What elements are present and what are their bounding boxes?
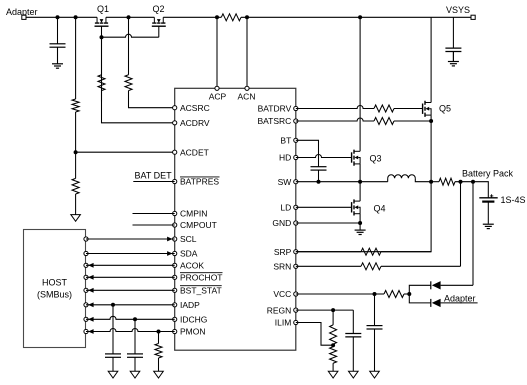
ground (triangle) below REGN cap	[349, 371, 359, 378]
pin SRN	[273, 262, 298, 272]
resistor: ILIM divider lower	[330, 345, 337, 371]
svg-text:BT: BT	[280, 136, 291, 146]
resistor: ILIM divider upper	[330, 310, 337, 345]
pin IDCHG	[173, 315, 208, 325]
svg-text:ACSRC: ACSRC	[180, 103, 210, 113]
pin ACP	[209, 86, 227, 101]
svg-text:Q3: Q3	[370, 154, 382, 164]
transistor Q4 (low-side N-FET)	[352, 199, 386, 215]
wire: Q4 source to ground	[359, 214, 361, 223]
wire VCC	[296, 293, 375, 295]
terminal: VSYS output	[446, 5, 475, 19]
svg-text:SW: SW	[278, 177, 292, 187]
svg-text:HOST: HOST	[42, 278, 68, 288]
resistor: SRP filter	[296, 248, 431, 255]
pin CMPOUT	[173, 220, 217, 230]
svg-text:Battery Pack: Battery Pack	[462, 169, 514, 179]
node BAT DET	[133, 171, 174, 182]
junction on IADP line	[111, 303, 115, 307]
capacitor: adapter input	[57, 17, 59, 44]
transistor Q5 (BATFET)	[423, 101, 451, 117]
pin BATPRES	[173, 177, 220, 187]
junction on rail at Q3 drain	[358, 15, 362, 19]
pin ACOK	[173, 261, 205, 271]
svg-text:VSYS: VSYS	[446, 5, 470, 15]
wire: Q3 source to SW	[359, 164, 361, 182]
svg-text:SRP: SRP	[274, 247, 292, 257]
op-amp U1: charger IC body	[175, 88, 296, 350]
wire BATDRV with hop	[296, 106, 374, 109]
svg-text:CMPOUT: CMPOUT	[180, 220, 217, 230]
svg-text:BATSRC: BATSRC	[257, 116, 291, 126]
pin SDA	[173, 249, 198, 259]
wire: adapter input rail	[26, 16, 471, 18]
wire ACOK with arrow into host	[84, 263, 175, 268]
pin VCC	[273, 289, 298, 299]
ground (triangle) below VCC cap	[370, 371, 380, 378]
pin SRP	[274, 247, 298, 257]
pin ACSRC	[173, 103, 210, 113]
svg-text:Adapter: Adapter	[444, 294, 476, 304]
pin ACN	[238, 86, 256, 101]
pin HD	[279, 153, 298, 163]
junction on rail at ACDET tap	[74, 15, 78, 19]
junction at ACDET tap	[74, 150, 78, 154]
junction VCC cap tap	[373, 292, 377, 296]
pin REGN	[267, 305, 298, 315]
wire: Q5 source to battery rail to SRP	[296, 115, 431, 252]
wire SDA with arrow into IC	[84, 251, 175, 256]
wire: CMPIN stub	[133, 213, 175, 215]
svg-text:SRN: SRN	[273, 262, 291, 272]
terminal: Adapter input	[6, 7, 38, 19]
resistor: BATDRV gate	[374, 105, 423, 112]
wire: BT to bootstrap cap	[296, 140, 319, 163]
wire: ACN tap	[246, 17, 248, 88]
junction SRN tap	[459, 180, 463, 184]
pin PROCHOT	[173, 273, 223, 283]
pin BATDRV	[258, 104, 298, 114]
pin BATSRC	[257, 116, 297, 126]
ground (triangle) below IADP cap	[108, 371, 118, 378]
pin LD	[280, 203, 297, 213]
wire: Q1/Q2 gate net with hop over ACSRC drop	[102, 26, 159, 101]
svg-text:Q5: Q5	[439, 104, 451, 114]
wire: rail to Q3 drain	[359, 17, 361, 151]
junction on rail between Q1 and Q2 (ACSRC tap)	[127, 15, 131, 19]
junction on PMON line	[157, 330, 161, 334]
svg-text:LD: LD	[280, 203, 291, 213]
svg-text:ACP: ACP	[209, 92, 227, 102]
junction REGN divider tap	[331, 308, 335, 312]
svg-text:ACDRV: ACDRV	[180, 118, 210, 128]
capacitor: IADP filter	[112, 305, 114, 354]
wire PMON with hops and arrow into host	[84, 329, 175, 334]
wire SCL with arrow into IC	[84, 237, 175, 242]
wire REGN	[296, 309, 354, 311]
svg-text:Q1: Q1	[97, 4, 109, 14]
pin SW	[278, 177, 298, 187]
svg-text:HD: HD	[279, 153, 291, 163]
transistor Q2 (P-FET)	[152, 4, 166, 26]
pin CMPIN	[173, 209, 208, 219]
wire: battery positive	[473, 182, 488, 198]
junction battery diode tap	[471, 180, 475, 184]
junction at Q5 source / BATSRC	[429, 119, 433, 123]
pin SCL	[173, 234, 197, 244]
wire IDCHG with hop and arrow into host	[84, 316, 175, 321]
svg-text:ACDET: ACDET	[180, 147, 209, 157]
svg-text:REGN: REGN	[267, 305, 292, 315]
wire ILIM to divider tap	[296, 323, 333, 346]
junction bootstrap cap to SW	[317, 180, 321, 184]
resistor: SRN filter	[296, 263, 461, 270]
pin PMON	[173, 327, 206, 337]
svg-text:BAT DET: BAT DET	[135, 171, 173, 181]
svg-text:SCL: SCL	[180, 234, 197, 244]
wire: SRN to battery rail	[460, 182, 462, 267]
junction on rail at input cap	[56, 15, 60, 19]
block: HOST (SMBus)	[24, 230, 86, 348]
ground (triangle) below ACDET resistor	[71, 215, 81, 222]
svg-text:(SMBus): (SMBus)	[37, 289, 72, 299]
capacitor: bootstrap BT-SW	[318, 163, 320, 167]
svg-text:1S-4S: 1S-4S	[501, 195, 526, 205]
wire IADP with arrow into host	[84, 302, 175, 307]
svg-text:BATPRES: BATPRES	[180, 177, 219, 187]
capacitor: VCC decoupling	[374, 294, 376, 326]
junction on IDCHG line	[133, 317, 137, 321]
svg-text:CMPIN: CMPIN	[180, 209, 207, 219]
wire: ACP tap	[216, 17, 218, 88]
pin ACDRV	[173, 118, 210, 128]
capacitor: VSYS output	[452, 17, 454, 48]
wire LD to Q4 gate	[296, 206, 352, 208]
svg-text:PMON: PMON	[180, 327, 206, 337]
junction inductor/battery/SRP node	[429, 180, 433, 184]
svg-text:ILIM: ILIM	[275, 318, 292, 328]
svg-text:IADP: IADP	[180, 300, 200, 310]
wire: ACDET net	[76, 17, 175, 152]
wire BATSRC with hop	[296, 118, 374, 121]
pin BST_STAT	[173, 286, 222, 296]
wire: SW to Q4 drain	[359, 182, 361, 201]
capacitor: REGN	[352, 310, 354, 333]
svg-text:SDA: SDA	[180, 249, 198, 259]
inductor L (SW to battery)	[388, 175, 431, 182]
pin IADP	[173, 300, 201, 310]
resistor: input current sense (ACP-ACN)	[221, 14, 241, 21]
junction VCC diode node	[407, 292, 411, 296]
svg-text:VCC: VCC	[273, 289, 291, 299]
resistor: ACSRC sense	[125, 17, 175, 107]
transistor Q3 (high-side N-FET)	[352, 150, 382, 166]
ground (triangle) below ILIM divider	[328, 371, 338, 378]
resistor: BATSRC	[374, 118, 431, 125]
wire: VSYS to Q5 drain	[430, 17, 432, 102]
capacitor: IDCHG filter	[134, 319, 136, 354]
svg-text:Q4: Q4	[374, 204, 386, 214]
ground (triangle) below IDCHG cap	[130, 371, 140, 378]
wire GND	[296, 222, 360, 224]
pin GND	[272, 218, 297, 228]
wire PROCHOT with arrow into host	[84, 275, 175, 280]
svg-text:ACN: ACN	[238, 92, 256, 102]
junction Q4 source/GND	[358, 221, 362, 225]
wire SW	[296, 181, 388, 183]
junction at Q1 gate node	[100, 35, 104, 39]
battery 1S-4S	[479, 194, 525, 223]
ground (earth) below VSYS capacitor	[452, 52, 454, 62]
diode: from adapter to VCC	[409, 294, 477, 307]
svg-text:ACOK: ACOK	[180, 261, 204, 271]
resistor: PMON load	[155, 332, 162, 372]
ground (earth) below battery	[487, 222, 489, 225]
svg-text:BST_STAT: BST_STAT	[180, 286, 222, 296]
ground (earth) at Q4 source	[359, 223, 361, 230]
resistor: ACDET pulldown	[72, 152, 79, 214]
junction on rail at ACP tap	[215, 15, 219, 19]
resistor: VCC feed	[375, 291, 410, 298]
resistor: adapter detect divider upper	[72, 99, 79, 112]
wire BST_STAT with arrow into host	[84, 288, 175, 293]
ground (earth) below input capacitor	[57, 47, 59, 64]
resistor: ACDRV gate drive	[98, 37, 175, 123]
svg-text:GND: GND	[272, 218, 291, 228]
pin BT	[280, 136, 297, 146]
wire: CMPOUT stub	[133, 224, 175, 226]
junction ILIM divider mid	[331, 343, 335, 347]
diode: from battery to VCC	[409, 182, 473, 294]
svg-text:PROCHOT: PROCHOT	[180, 273, 223, 283]
pin ACDET	[173, 147, 209, 157]
pin ILIM	[275, 318, 298, 328]
svg-text:BATDRV: BATDRV	[258, 104, 292, 114]
junction on rail at ACN tap	[245, 15, 249, 19]
resistor: battery current sense	[431, 178, 473, 185]
svg-text:IDCHG: IDCHG	[180, 315, 207, 325]
wire HD to Q3 gate with hop	[296, 155, 352, 158]
svg-text:Q2: Q2	[153, 4, 165, 14]
junction Q3 source at SW	[358, 180, 362, 184]
ground (triangle) below PMON resistor	[154, 371, 164, 378]
transistor Q1 (P-FET)	[95, 4, 110, 26]
